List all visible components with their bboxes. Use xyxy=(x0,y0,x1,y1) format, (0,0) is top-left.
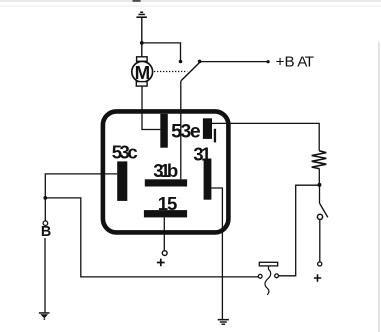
node: switch contact dot (right, to +BAT) xyxy=(198,60,202,64)
resistor (zigzag) xyxy=(312,151,327,169)
ground (bottom) xyxy=(218,319,229,325)
plus sign (pin 15) xyxy=(157,259,165,267)
node: resistor bottom junction dot xyxy=(317,183,321,187)
bimetal contact: left terminal circle xyxy=(258,274,262,278)
ground (left) xyxy=(39,312,50,320)
node: switch fixed contact dot (left) xyxy=(179,60,183,64)
switch blade (open, top-left switch) xyxy=(181,63,199,81)
svg-text:AT: AT xyxy=(297,54,314,71)
bimetal contact: right terminal circle xyxy=(275,274,279,278)
wire: dot down to B terminal xyxy=(44,198,46,221)
svg-text:31b: 31b xyxy=(153,160,178,181)
wire: pin 15 down to + terminal xyxy=(163,217,165,250)
svg-text:B: B xyxy=(41,224,51,240)
wire: switch pivot down to pin 31b xyxy=(180,81,182,179)
pin 53e bar xyxy=(203,118,212,139)
terminal circle (pin 15) xyxy=(162,251,167,256)
mechanical link dotted line motor to switch xyxy=(154,71,187,73)
wire: motor to relay pin (armature pin) xyxy=(142,86,160,129)
wire: dot to bimetal contact (down-right path) xyxy=(45,198,258,277)
wire: pin 53c to left xyxy=(45,174,117,198)
node: junction dot left branch xyxy=(43,196,47,200)
wire: switch to +BAT xyxy=(200,61,269,63)
ground (top, inverted) xyxy=(136,12,147,19)
motor M: body circle xyxy=(132,61,153,82)
page scan artifact dark dash top xyxy=(133,0,141,2)
node: +BAT terminal dot xyxy=(267,60,270,63)
pin 15 bar xyxy=(144,210,187,217)
wire: junction to switch top xyxy=(142,43,181,61)
switch contact circle (right side) xyxy=(317,214,322,219)
wire: pin 53e to resistor xyxy=(212,123,319,150)
wire: resistor to junction xyxy=(318,168,320,185)
pin 31b bar xyxy=(145,179,187,186)
bimetal heater squiggle xyxy=(265,266,271,295)
wire: contact down to + terminal xyxy=(319,220,321,262)
pin bar (armature, top-left inside) xyxy=(160,114,168,148)
relay body outline xyxy=(103,111,228,232)
svg-text:53e: 53e xyxy=(171,121,201,143)
switch blade (right side, open) xyxy=(320,203,328,217)
terminal circle (+ right) xyxy=(318,262,322,266)
node: junction dot at motor feed split xyxy=(140,41,144,45)
svg-text:53c: 53c xyxy=(112,141,138,162)
wire: below B to ground xyxy=(44,238,46,312)
pin 53e small mark I xyxy=(214,129,216,143)
terminal circle B xyxy=(43,221,48,226)
bimetal contact: bar xyxy=(259,262,277,266)
motor M: top brush xyxy=(137,57,148,62)
pin 53c bar xyxy=(117,161,127,201)
svg-text:M: M xyxy=(135,62,151,83)
wire: junction down to switch xyxy=(319,185,321,203)
wire: pin 31 to bottom ground xyxy=(211,188,222,319)
motor M: bottom brush xyxy=(136,82,147,87)
wire: bimetal right to resistor junction xyxy=(279,185,318,276)
page scan artifact top band xyxy=(0,0,381,2)
svg-text:+B: +B xyxy=(276,54,295,71)
pin 31 bar xyxy=(204,159,212,200)
wire: top ground to motor xyxy=(141,18,143,58)
plus sign (right) xyxy=(314,274,321,281)
page scan artifact right edge line xyxy=(378,42,379,332)
